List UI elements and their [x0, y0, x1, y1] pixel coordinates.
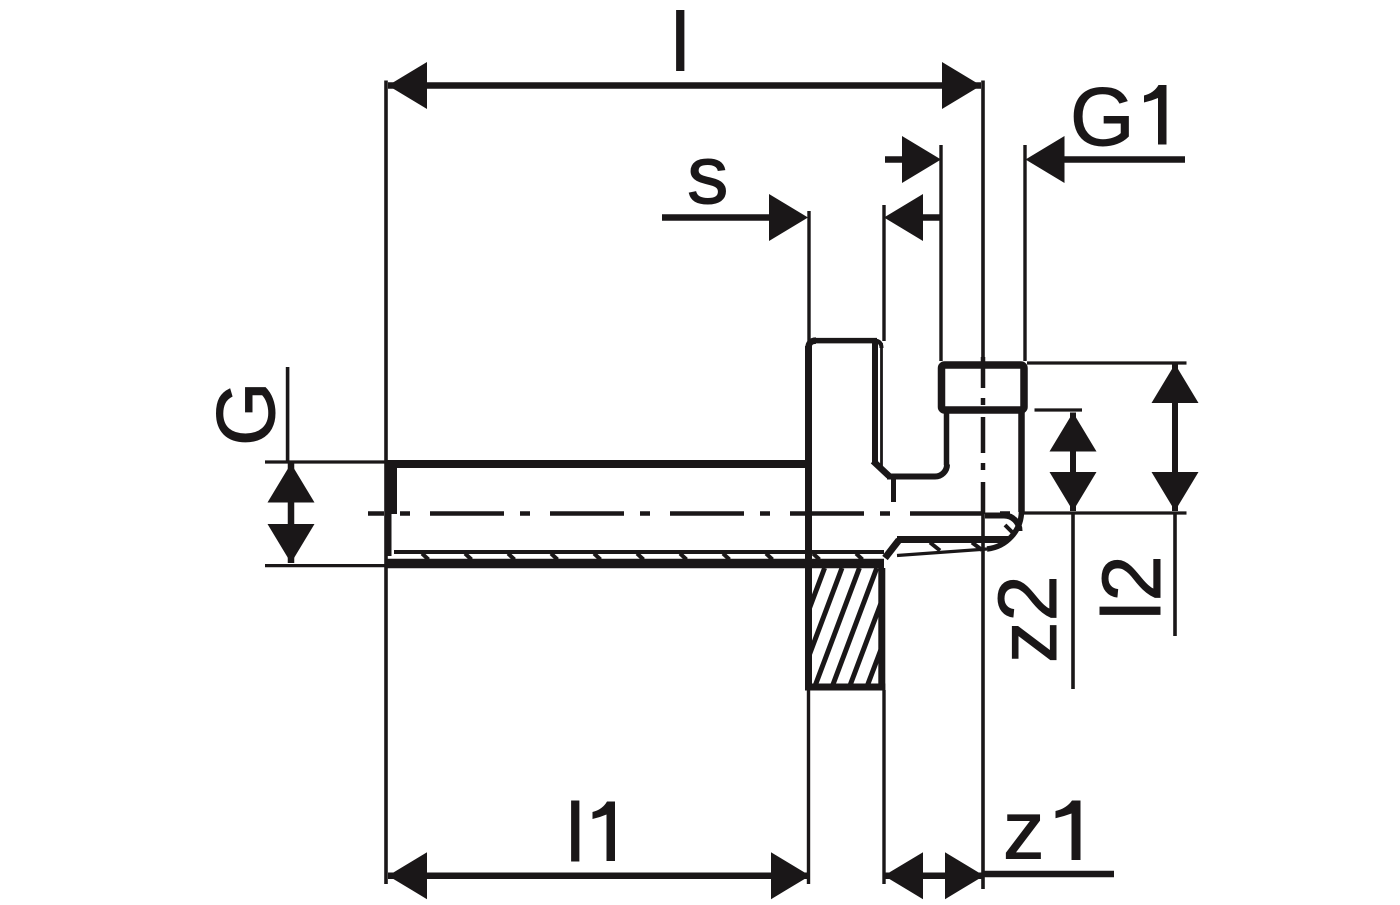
dimension G1 right arrowhead — [1026, 136, 1065, 183]
pipe thread root line — [394, 550, 884, 554]
dimension s shaft — [662, 214, 771, 221]
extension line left (l / l1 / G ticks at x=386) — [384, 81, 388, 885]
nut section bottom edge — [805, 684, 885, 691]
reference line z2 top (socket bottom) — [1035, 408, 1083, 411]
centerline vertical axis (dash-dot section) — [981, 357, 986, 514]
dimension l1 shaft — [388, 872, 810, 879]
extension line G1 left (x=941) — [939, 145, 942, 361]
dimension z2 shaft — [1070, 413, 1076, 512]
dimension G down arrowhead — [268, 524, 315, 563]
dimension z2 down arrowhead — [1050, 472, 1097, 511]
dimension z1 right arrowhead — [945, 852, 984, 899]
svg-text:s: s — [687, 128, 729, 221]
dimension s right tail — [921, 214, 941, 221]
elbow bore corner line — [985, 516, 1020, 532]
nut left edge — [805, 346, 812, 690]
extension line s right (nut right top) — [882, 205, 885, 341]
elbow vertical pipe right edge — [1018, 411, 1025, 512]
nut top edge — [813, 338, 877, 344]
extension line G1 right (x=1025) — [1023, 145, 1026, 361]
dimension l2 up arrowhead — [1152, 364, 1199, 403]
dimension G1 left tail — [885, 156, 904, 163]
svg-text:G: G — [1070, 70, 1135, 163]
nut top left corner — [809, 341, 817, 348]
centerline horizontal axis — [368, 511, 1015, 516]
socket outline — [942, 365, 1025, 410]
pipe left end cap — [386, 460, 397, 514]
svg-text:l: l — [671, 0, 689, 89]
elbow bottom edge — [897, 536, 1008, 543]
nut chamfer top right — [873, 461, 889, 476]
dimension G shaft — [288, 464, 295, 564]
nut section left edge — [805, 568, 812, 690]
svg-text:l2: l2 — [1085, 555, 1178, 620]
dimension G1 left arrowhead — [902, 136, 941, 183]
pipe top edge — [386, 460, 812, 468]
extension line G label — [286, 367, 290, 461]
leader line z2 — [1071, 513, 1075, 689]
dimension l2 shaft — [1172, 364, 1178, 511]
reference line l2/z2 bottom (axis level) — [1022, 511, 1187, 514]
nut section hatch — [779, 568, 929, 690]
elbow under line thin — [897, 549, 987, 556]
dimension z1 tail — [984, 871, 1114, 878]
extension line l1 right (below nut) — [807, 690, 810, 884]
dimension l left arrowhead — [388, 62, 427, 109]
extension line s left (nut left top) — [807, 211, 810, 341]
dimension z1 left arrowhead — [884, 852, 923, 899]
dimension l1 right arrowhead — [771, 852, 810, 899]
pipe thread crest line — [386, 559, 884, 569]
nut top right corner — [875, 341, 882, 348]
svg-text:z2: z2 — [981, 575, 1074, 663]
svg-text:G: G — [199, 381, 292, 446]
dimension l2 down arrowhead — [1152, 472, 1199, 511]
dimension G1 right tail — [1062, 156, 1185, 163]
dimension G up arrowhead — [268, 464, 315, 503]
elbow inner corner arc — [935, 465, 947, 477]
dimension l right arrowhead — [942, 62, 981, 109]
dimension l shaft — [388, 82, 981, 89]
elbow thread ticks — [930, 525, 1014, 551]
nut right facet line — [872, 341, 878, 462]
dimension s left arrowhead — [769, 194, 808, 241]
leader line l2 — [1173, 513, 1177, 636]
nut section right edge — [878, 568, 885, 690]
dimension s right arrowhead — [884, 194, 923, 241]
elbow taper bottom right of nut — [885, 540, 899, 558]
svg-text:z: z — [1003, 784, 1045, 877]
reference line l2 top (socket top) — [1027, 361, 1187, 364]
dimension G top tick — [265, 460, 388, 463]
extension line right of l / z1 (x=983 solid parts) — [981, 81, 985, 358]
dimension l1 left arrowhead — [388, 852, 427, 899]
dimension z2 up arrowhead — [1050, 413, 1097, 452]
extension line z1 left (below nut) — [882, 690, 885, 884]
elbow outer corner arc — [987, 511, 1022, 549]
elbow vertical pipe left edge — [944, 411, 950, 465]
elbow small cylinder top edge — [887, 474, 935, 480]
cone edge right of nut — [891, 474, 896, 502]
pipe thread ticks — [422, 554, 863, 560]
dimension G bottom tick — [265, 564, 393, 567]
svg-text:l: l — [566, 786, 584, 879]
nut right silhouette line — [880, 343, 883, 468]
dimension z1 shaft — [884, 872, 984, 879]
